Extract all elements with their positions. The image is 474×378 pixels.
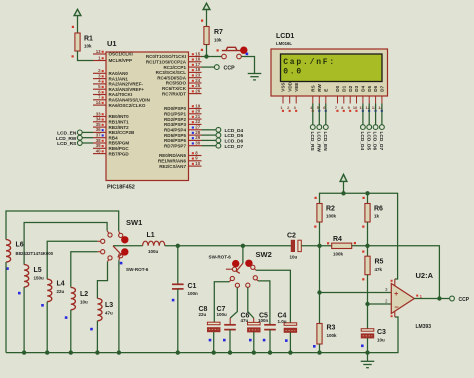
svg-text:39: 39 [96,143,101,148]
wire LCD pin to LCD_RW [318,104,320,125]
svg-text:LCD_D7: LCD_D7 [225,144,244,150]
wire SW1 pole to L1 [113,245,143,247]
op-amp pin markers [394,279,396,286]
U1 pin 40 (RB7/PGD) [93,148,129,156]
U1 pin 24 (RC5/SDO) [166,78,202,86]
svg-text:R1: R1 [84,36,93,43]
svg-text:10u: 10u [377,338,385,343]
svg-text:RB1/INT1: RB1/INT1 [109,120,130,125]
SW1 contact 3 [101,239,105,243]
svg-text:CCP: CCP [459,297,470,303]
marker [65,316,68,319]
wire ground rail [6,317,398,353]
wire stub [98,240,101,242]
U1 pin 22 (RD3/PSP3) [164,119,202,127]
svg-text:L6: L6 [16,242,24,249]
svg-text:D1: D1 [341,85,346,91]
svg-text:U1: U1 [107,39,117,48]
junction rail [365,350,369,354]
svg-text:LCD_EN: LCD_EN [322,132,328,152]
U1 pin 19 (RD0/PSP0) [164,103,202,111]
svg-text:13: 13 [96,49,101,54]
wire LCD pin to LCD_D5 [368,104,370,125]
wire R4 to output feedback [352,246,440,299]
junction rail [268,350,272,354]
wire C8 to rail [213,332,215,353]
SW1 contact 4 [101,250,105,254]
U1 pin 2 (RA0/AN0) [93,68,128,76]
LCD1 pin 9 (D2) [348,85,353,112]
marker [120,262,123,265]
inductor L1 coil [143,241,165,246]
SW1 contact 1 [119,233,123,237]
svg-text:U2:A: U2:A [416,271,434,280]
svg-text:21: 21 [195,114,200,119]
SW1 interactive dot down [121,248,128,255]
svg-text:29: 29 [195,135,200,140]
inductor L3 coil [97,298,102,320]
wire stub dangling [226,268,232,270]
svg-text:RB0/INT0: RB0/INT0 [109,114,130,119]
svg-text:LCD_D4: LCD_D4 [359,132,365,151]
wire LCD pin to LCD_D4 [362,104,364,125]
wire LCD pin to LCD_RS [312,104,314,125]
marker [172,299,175,302]
svg-text:−: − [394,303,399,312]
svg-text:D0: D0 [335,85,340,91]
svg-text:RE2/CS/AN7: RE2/CS/AN7 [159,164,186,169]
wire power to R1 [77,16,79,33]
wire stub [118,258,121,261]
U1 pin 30 (RD7/PSP7) [164,141,202,149]
svg-text:D2: D2 [348,85,353,91]
svg-text:RA0/AN0: RA0/AN0 [109,71,129,76]
U1 pin 33 (RB0/INT0) [93,111,129,119]
power arrow VCC rail [340,174,347,181]
terminal LCD_RW [317,125,322,130]
junction rail [69,350,73,354]
svg-text:RA5/AN4/SS/LVDIN: RA5/AN4/SS/LVDIN [109,98,150,103]
wire -input to opamp pin2 [368,303,392,305]
svg-text:25: 25 [195,83,200,88]
svg-text:D3: D3 [354,85,359,91]
junction R6 top [365,191,369,195]
svg-text:37: 37 [96,133,101,138]
svg-text:LCD_RW: LCD_RW [315,132,321,153]
svg-text:SW1: SW1 [126,218,142,227]
wire R3 to rail [319,344,321,353]
terminal LCD_EN [77,130,82,135]
svg-text:VEE: VEE [294,82,299,91]
svg-text:10k: 10k [84,44,92,49]
svg-text:RC4/SDI/SDA: RC4/SDI/SDA [157,75,187,80]
U1 pin 4 (RA2/AN2/VREF-) [93,79,143,87]
svg-text:LCD_D6: LCD_D6 [372,132,378,151]
svg-text:27: 27 [195,125,200,130]
SW2 contact 3 [235,283,239,287]
terminal LCD_D4 [361,125,366,130]
terminal LCD_EN [323,125,328,130]
svg-text:SW-ROT-6: SW-ROT-6 [126,267,149,272]
terminal LCD_D5 [367,125,372,130]
wire button to ground [241,57,254,74]
SW2 contact 1 [232,267,236,271]
svg-text:SW2: SW2 [256,250,272,259]
wire rail to ground [367,353,369,362]
LCD1 pin 10 (D3) [353,85,359,112]
svg-text:RD2/PSP2: RD2/PSP2 [164,117,186,122]
U1 pin 1 (MCLR/VPP) [93,55,132,63]
terminal LCD_RS [310,125,315,130]
svg-text:35: 35 [96,122,101,127]
svg-text:LCD_EN: LCD_EN [57,131,77,137]
wire stub [108,260,109,262]
svg-text:22u: 22u [57,289,65,294]
junction rail [176,350,180,354]
marker [41,304,44,307]
wire C5 to rail [269,330,271,353]
U1 pin 36 (RB3/CCP2B) [93,127,135,135]
marker [361,345,364,348]
wire L5 to SW1 contact [24,223,107,265]
wire LCD_RW to U1 [82,137,93,139]
U1 pin 18 (RC3/SCK/SCL) [156,67,202,75]
terminal LCD_D7 [380,125,385,130]
svg-text:24: 24 [195,78,200,83]
svg-text:L4: L4 [57,281,65,288]
svg-text:R7: R7 [214,29,223,36]
svg-text:D6: D6 [373,85,378,91]
U1 pin 39 (RB6/PGC) [93,143,129,151]
svg-text:100u: 100u [148,249,159,254]
svg-text:RC5/SDO: RC5/SDO [166,81,187,86]
svg-text:22u: 22u [199,312,207,317]
marker [90,328,93,331]
U1 pin 17 (RC2/CCP1) [164,62,202,70]
svg-text:RC7/RX/DT: RC7/RX/DT [162,91,186,96]
wire rail to R6 [367,193,369,203]
svg-text:10u: 10u [80,299,88,304]
svg-text:RD3/PSP3: RD3/PSP3 [164,122,186,127]
junction output/feedback [437,296,441,300]
wire R1 to MCLR pin1 [78,51,94,61]
svg-text:L5: L5 [34,267,42,274]
svg-text:RC0/T1OSO/T1CKI: RC0/T1OSO/T1CKI [146,54,186,59]
svg-text:47u: 47u [241,318,249,323]
U1 pin 27 (RD4/PSP4) [164,125,202,133]
svg-text:16: 16 [195,57,200,62]
wire SW2 contact to C7 [230,288,237,319]
svg-text:100n: 100n [188,291,199,296]
LCD1 pin 14 (D7) [378,85,384,112]
wire +input to R3 [319,293,321,324]
wire LCD pin to LCD_EN [325,104,327,125]
wire VCC rail to opamp V+ [320,193,398,279]
wire LCD_D7 to U1 [202,145,216,147]
svg-text:R3: R3 [327,325,336,332]
svg-text:RB5/PGM: RB5/PGM [109,141,130,146]
wire pin17 to CCP terminal [202,66,215,68]
wire node to +input [319,246,321,293]
U1 pin 26 (RC7/RX/DT) [162,88,202,96]
resistor R5 body [365,256,370,275]
svg-text:R4: R4 [333,236,342,243]
op-amp U2:A (LM393) [391,284,414,314]
LCD1 pin 4 (RS) [310,85,315,112]
svg-text:LM393: LM393 [416,324,432,330]
U1 pin 37 (RB4) [93,133,118,141]
terminal CCP (pin RC2) [214,65,219,70]
svg-text:R6: R6 [374,206,383,213]
U1 pin 9 (RE1/WR/AN6) [158,156,202,164]
wire power arrow stem [343,181,345,193]
junction R2 bottom / +input node [317,244,321,248]
svg-text:47u: 47u [105,310,113,315]
svg-text:17: 17 [195,62,200,67]
junction C1 top [176,244,180,248]
svg-text:34: 34 [96,117,101,122]
wire SW2 contact to C8 [214,282,229,322]
wire C2 to R4 [301,245,331,247]
svg-text:14: 14 [96,100,101,105]
svg-text:RC2/CCP1: RC2/CCP1 [164,65,187,70]
svg-text:20: 20 [195,109,200,114]
svg-text:D4: D4 [361,85,366,91]
marker [209,339,212,342]
U1 pin 10 (RE2/CS/AN7) [159,161,201,169]
resistor R2 body [317,204,322,223]
U1 pin 25 (RC6/TX/CK) [162,83,202,91]
svg-text:RE0/RD/AN5: RE0/RD/AN5 [159,153,187,158]
LCD1 pin 3 (VEE) [294,82,299,111]
svg-text:RW: RW [317,83,322,91]
ground near button [248,74,262,80]
wire stub [98,251,101,253]
svg-text:RC1/T1OSI/CCP2A: RC1/T1OSI/CCP2A [146,60,187,65]
svg-text:C3: C3 [377,329,386,336]
junction VCC arrow [341,191,345,195]
junction R6/R5/output net [365,244,369,248]
junction -input [365,302,369,306]
svg-text:10u: 10u [290,254,298,259]
terminal LCD_D4 [216,127,221,132]
power arrow VCC for R1 [74,9,81,15]
wire node to C1 [177,246,179,284]
svg-text:19: 19 [195,103,200,108]
svg-text:18: 18 [195,67,200,72]
SW1 contact 6 [119,254,123,258]
svg-text:10: 10 [195,161,200,166]
wire pin15 to button [202,56,222,58]
capacitor C3 plates [361,329,374,332]
wire -input to C3 [367,304,369,329]
wire L4 to rail [46,302,48,353]
U1 pin 15 (RC0/T1OSO/T1CKI) [146,51,202,59]
wire L3 to rail [96,321,98,353]
inductor L5 coil [24,265,29,287]
svg-text:C2: C2 [287,233,296,240]
svg-text:30: 30 [195,141,200,146]
svg-text:RA3/AN3/VREF+: RA3/AN3/VREF+ [109,87,145,92]
U1 pin 13 (OSC1/CLKI) [93,49,133,57]
marker [285,339,288,342]
svg-text:RD0/PSP0: RD0/PSP0 [164,106,186,111]
wire to C6 plate [253,318,255,322]
svg-text:OSC1/CLKI: OSC1/CLKI [109,52,133,57]
svg-text:RA4/T0CKI: RA4/T0CKI [109,92,133,97]
wire stub [255,269,256,270]
svg-text:L3: L3 [105,302,113,309]
svg-text:D7: D7 [380,85,385,91]
U1 pin 7 (RA5/AN4/SS/LVDIN) [93,95,150,103]
svg-text:SW-ROT-6: SW-ROT-6 [209,254,232,259]
wire LCD pin to LCD_D6 [375,104,377,125]
svg-text:RD4/PSP4: RD4/PSP4 [164,128,186,133]
U1 pin 21 (RD2/PSP2) [164,114,202,122]
svg-text:LCD_D5: LCD_D5 [365,132,371,151]
junction R7/pin15/button [204,54,208,58]
svg-text:LM016L: LM016L [276,41,292,46]
terminal LCD_D6 [216,138,221,143]
LCD1 pin 5 (RW) [317,83,322,111]
svg-text:RA1/AN1: RA1/AN1 [109,76,129,81]
capacitor C6 plates [248,322,261,325]
wire C4 to rail [289,332,291,352]
svg-text:Cap./nF:: Cap./nF: [283,58,336,67]
capacitor C7 plates [224,325,236,330]
U1 pin 28 (RD5/PSP5) [164,130,202,138]
wire SW2 contact to C6 [248,287,254,318]
wire LCD_D6 to U1 [202,139,216,141]
svg-text:RC6/TX/CK: RC6/TX/CK [162,86,187,91]
svg-text:LCD_D6: LCD_D6 [225,139,244,145]
marker [249,339,252,342]
junction rail [117,350,121,354]
push button actuator [222,47,241,50]
U1 pin 35 (RB2/INT2) [93,122,129,130]
U1 pin 29 (RD6/PSP6) [164,135,202,143]
capacitor C4 plates [284,323,297,326]
svg-text:100u: 100u [217,312,228,317]
svg-text:RS: RS [310,85,315,91]
svg-text:MCLR/VPP: MCLR/VPP [109,58,133,63]
inductor L6 coil [6,240,11,262]
svg-text:LCD_D5: LCD_D5 [225,133,244,139]
LCD1 pin 2 (VDD) [287,81,292,112]
svg-text:33: 33 [96,111,101,116]
SW2 contact 5 [253,276,257,280]
resistor R6 body [365,204,370,223]
wire R5 to -input [367,275,369,304]
svg-text:D5: D5 [367,85,372,91]
wire +input to opamp pin3 [320,292,392,294]
wire C1 to rail [177,289,179,353]
terminal LCD_D6 [373,125,378,130]
resistor R3 body [317,324,322,345]
U1 pin 38 (RB5/PGM) [93,138,129,146]
svg-text:RE1/WR/AN6: RE1/WR/AN6 [158,159,187,164]
svg-text:R2: R2 [326,206,335,213]
marker [18,292,21,295]
wire LCD_RS to U1 [82,142,93,144]
junction SW2 pole [241,244,245,248]
svg-text:10: 10 [353,105,357,110]
wire SW2 contact to C5 [258,281,270,324]
svg-text:RB6/PGC: RB6/PGC [109,146,130,151]
svg-text:36: 36 [96,127,101,132]
svg-text:L2: L2 [80,291,88,298]
terminal LCD_RS [77,141,82,146]
wire power to R7 [206,10,208,27]
wire R6 to R5 [367,222,369,256]
ground main ground [361,361,375,367]
svg-text:LCD1: LCD1 [276,33,294,40]
svg-text:PIC18F452: PIC18F452 [107,185,135,191]
marker [246,53,249,56]
wire L2 to rail [70,310,72,353]
svg-text:B82432T1474K000: B82432T1474K000 [16,251,54,256]
wire SW1 contact 6 to rail [118,260,120,352]
U1 pin 20 (RD1/PSP1) [164,109,202,117]
svg-text:LCD_D4: LCD_D4 [225,128,244,134]
wire LCD_D5 to U1 [202,134,216,136]
junction rail [228,350,232,354]
LCD1 pin 11 (D4) [359,85,365,112]
SW2 contact 2 [230,276,234,280]
svg-text:23: 23 [195,73,200,78]
svg-text:RD6/PSP6: RD6/PSP6 [164,138,186,143]
resistor R7 body [204,27,209,45]
U1 pin 5 (RA3/AN3/VREF+) [93,84,144,92]
capacitor C8 plates [207,322,220,325]
svg-text:RD1/PSP1: RD1/PSP1 [164,112,186,117]
svg-text:38: 38 [96,138,101,143]
svg-text:VDD: VDD [287,81,292,91]
svg-text:LCD_RS: LCD_RS [57,141,77,147]
terminal LCD_RW [77,135,82,140]
wire C3 to rail [367,338,369,353]
marker [6,267,9,270]
wire stub [257,280,258,281]
U1 pin 23 (RC4/SDI/SDA) [157,73,201,81]
switch SW2 wiper [236,263,243,273]
svg-text:CCP: CCP [224,66,236,72]
wire stub [229,280,231,282]
svg-text:RA2/AN2/VREF-: RA2/AN2/VREF- [109,82,144,87]
U1 pin 3 (RA1/AN1) [93,73,128,81]
svg-text:100k: 100k [333,251,344,256]
wire LCD_D4 to U1 [202,129,216,131]
wire SW1 contact to L3 [97,262,107,299]
SW2 contact 4 [246,283,250,287]
SW1 contact 5 [108,256,112,260]
terminal CCP output [450,296,455,301]
svg-text:LCD_RW: LCD_RW [56,136,77,142]
inductor L2 coil [71,287,76,309]
wire C7 to rail [229,330,231,353]
button interactive dot [240,47,247,54]
marker [263,339,266,342]
svg-text:R5: R5 [375,259,384,266]
junction rail [212,350,216,354]
U1 pin 16 (RC1/T1OSI/CCP2A) [146,57,202,65]
LCD1 pin 7 (D0) [335,85,340,112]
capacitor C2 plates [291,240,294,251]
terminal LCD_D5 [216,133,221,138]
power arrow VCC for R7 [203,3,210,9]
wire R2 to node [319,222,321,246]
LCD1 pin 1 (VSS) [280,82,285,111]
